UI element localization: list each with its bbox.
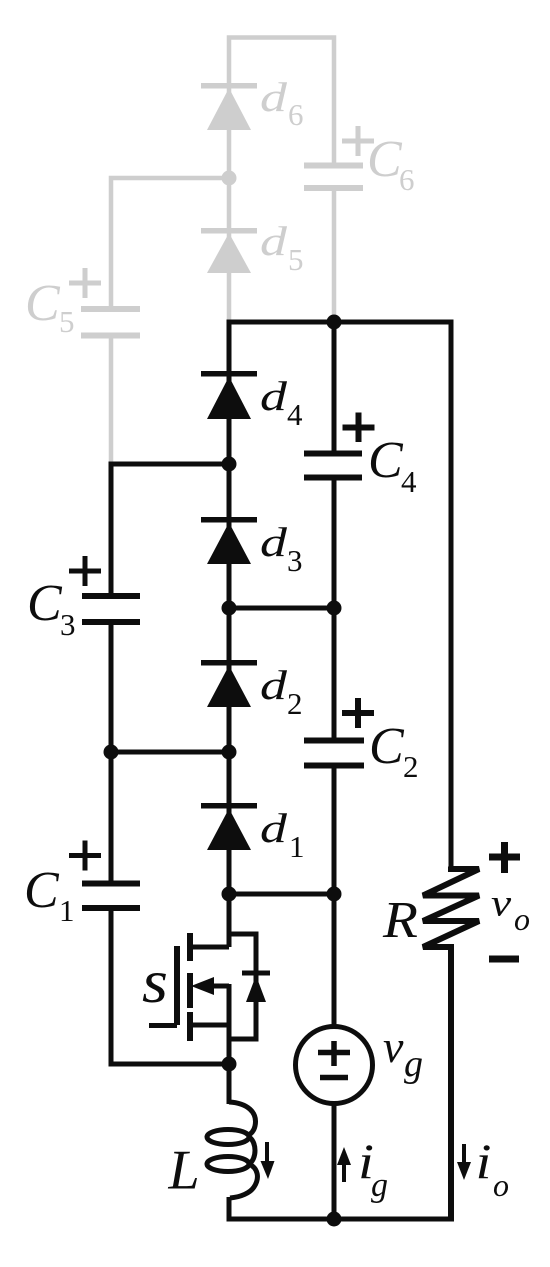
svg-text:s: s [142,948,168,1016]
svg-text:o: o [514,901,530,937]
svg-text:C: C [368,432,404,489]
svg-text:C: C [369,718,405,775]
svg-text:C: C [24,862,60,919]
svg-text:d: d [260,806,288,852]
svg-text:d: d [260,520,288,566]
svg-text:5: 5 [59,304,75,339]
svg-text:R: R [382,890,418,948]
svg-text:1: 1 [289,829,305,864]
svg-text:5: 5 [288,242,304,277]
svg-text:C: C [367,131,403,188]
svg-text:4: 4 [401,464,417,499]
svg-text:1: 1 [59,893,75,928]
svg-text:6: 6 [288,97,304,132]
svg-text:v: v [383,1021,404,1072]
svg-text:L: L [168,1140,200,1202]
svg-text:v: v [491,883,512,925]
svg-text:i: i [476,1133,492,1189]
svg-text:d: d [260,663,288,709]
svg-text:d: d [260,374,288,420]
svg-text:g: g [404,1043,423,1085]
svg-text:d: d [260,75,288,121]
svg-text:C: C [25,275,61,332]
svg-text:3: 3 [287,543,303,578]
svg-text:2: 2 [287,686,303,721]
svg-text:d: d [260,219,288,265]
svg-text:4: 4 [287,397,303,432]
svg-text:g: g [371,1167,388,1204]
svg-text:C: C [27,575,63,632]
svg-text:o: o [493,1167,509,1203]
svg-text:3: 3 [60,607,76,642]
svg-text:6: 6 [399,162,415,197]
svg-text:2: 2 [403,749,419,784]
